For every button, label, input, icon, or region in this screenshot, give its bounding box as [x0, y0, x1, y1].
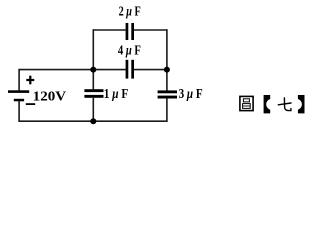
svg-text:120V: 120V: [33, 90, 66, 105]
svg-text:4 μ F: 4 μ F: [118, 43, 141, 58]
svg-text:3 μ F: 3 μ F: [179, 87, 203, 102]
svg-text:2 μ F: 2 μ F: [119, 4, 141, 19]
svg-text:1 μ F: 1 μ F: [104, 87, 129, 102]
